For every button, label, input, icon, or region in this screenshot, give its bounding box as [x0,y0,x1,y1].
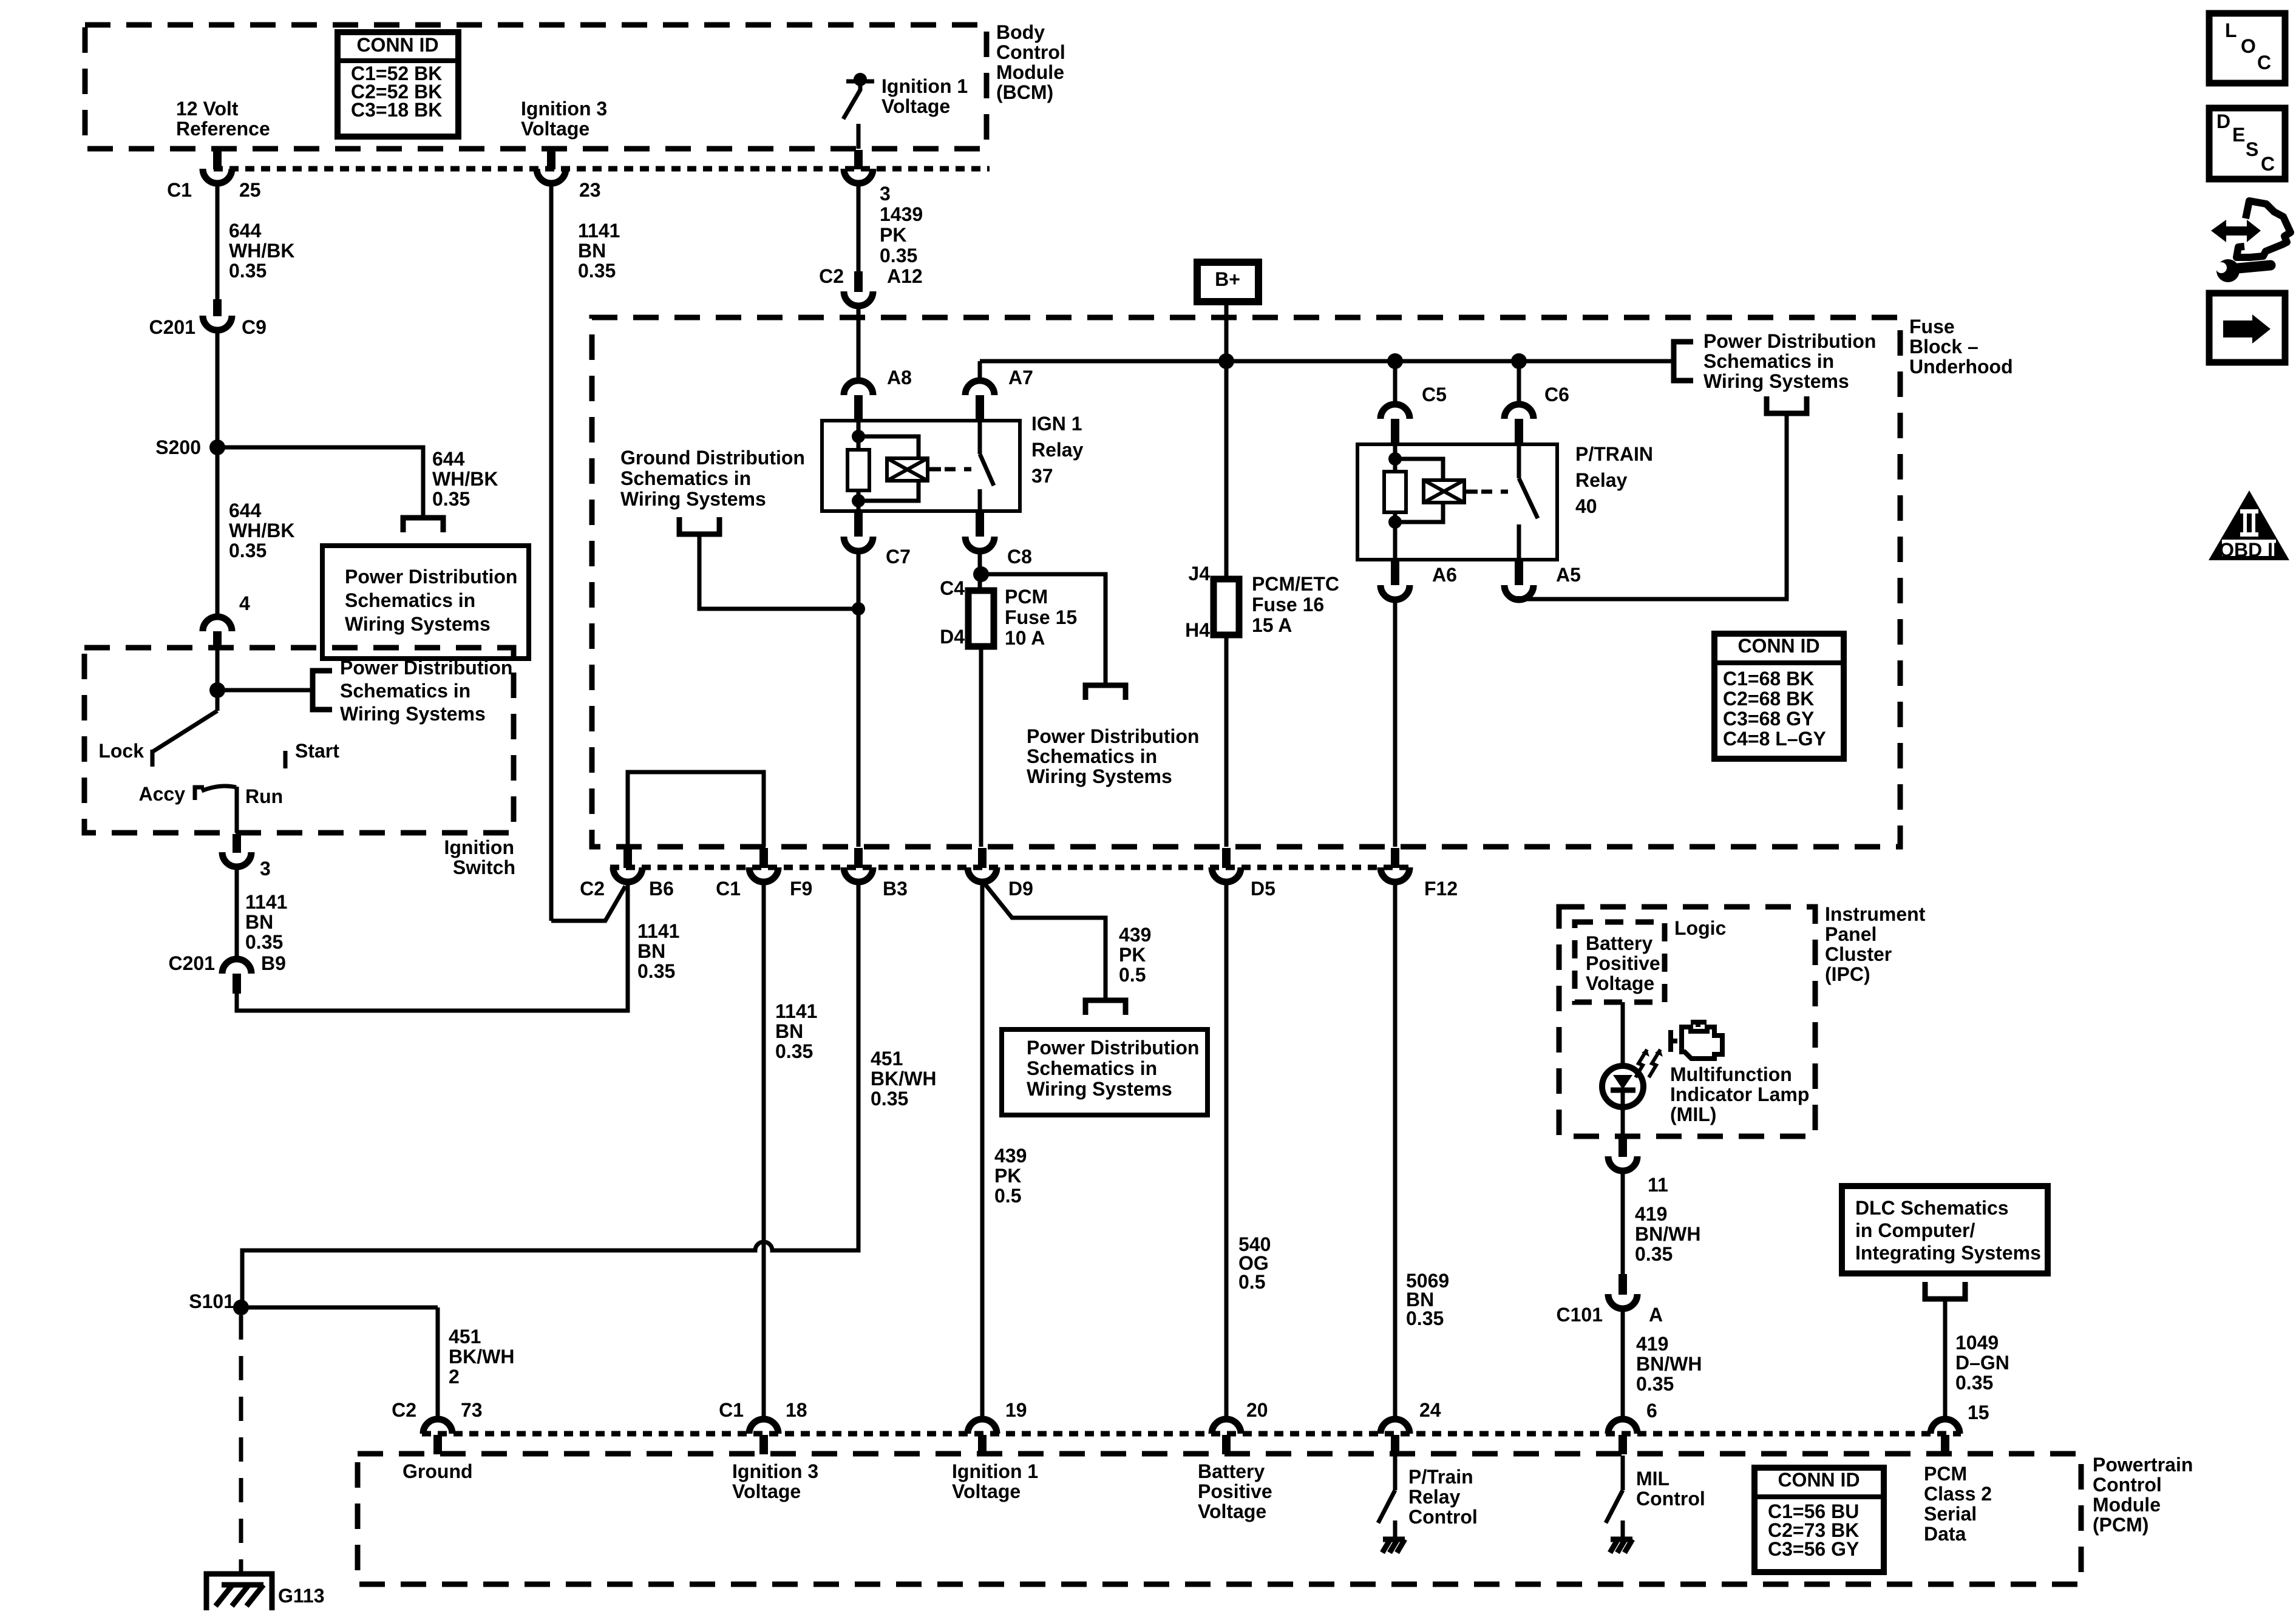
svg-text:0.35: 0.35 [1406,1307,1444,1329]
svg-text:Block –: Block – [1909,336,1978,358]
svg-text:Control: Control [2093,1474,2162,1496]
svg-text:Wiring Systems: Wiring Systems [345,613,491,635]
svg-text:Relay: Relay [1031,439,1084,461]
svg-text:Reference: Reference [176,118,270,140]
svg-text:Relay: Relay [1575,469,1628,491]
svg-text:BN: BN [245,911,273,933]
svg-text:0.35: 0.35 [229,260,267,282]
svg-text:0.35: 0.35 [245,931,283,953]
svg-text:B3: B3 [883,878,908,900]
svg-text:Accy: Accy [139,783,186,805]
svg-text:23: 23 [579,179,601,201]
svg-text:Power Distribution: Power Distribution [345,566,517,588]
svg-text:1141: 1141 [775,1000,817,1022]
svg-text:C201: C201 [149,316,196,338]
svg-text:0.35: 0.35 [1635,1243,1673,1265]
svg-text:Voltage: Voltage [732,1480,801,1502]
svg-text:Powertrain: Powertrain [2093,1454,2193,1476]
svg-text:(PCM): (PCM) [2093,1514,2148,1536]
svg-text:Module: Module [996,61,1064,83]
svg-text:C: C [2257,52,2271,73]
svg-text:Power Distribution: Power Distribution [1027,725,1199,747]
svg-text:C1=68 BK: C1=68 BK [1723,668,1814,690]
svg-text:0.5: 0.5 [1119,964,1146,986]
svg-text:A6: A6 [1432,564,1457,586]
svg-text:Voltage: Voltage [952,1480,1021,1502]
svg-text:644: 644 [432,448,465,470]
svg-text:419: 419 [1635,1203,1667,1225]
svg-text:Serial: Serial [1924,1503,1977,1525]
svg-text:11: 11 [1648,1174,1668,1196]
svg-text:A8: A8 [887,367,912,388]
svg-text:D4: D4 [940,626,965,648]
svg-text:S101: S101 [189,1290,234,1312]
svg-text:B6: B6 [649,878,674,900]
svg-text:Wiring Systems: Wiring Systems [620,488,766,510]
svg-text:Ignition 1: Ignition 1 [952,1460,1038,1482]
svg-text:40: 40 [1575,495,1597,517]
svg-text:Ground: Ground [402,1460,473,1482]
svg-text:Battery: Battery [1198,1460,1265,1482]
svg-text:C8: C8 [1007,546,1032,568]
svg-text:439: 439 [1119,924,1151,946]
svg-text:24: 24 [1419,1399,1441,1421]
svg-text:451: 451 [871,1048,903,1070]
svg-text:15 A: 15 A [1252,614,1292,636]
svg-text:PCM/ETC: PCM/ETC [1252,573,1339,595]
svg-text:Voltage: Voltage [521,118,589,140]
svg-text:Power Distribution: Power Distribution [1703,330,1876,352]
svg-text:Positive: Positive [1198,1480,1272,1502]
svg-text:0.35: 0.35 [637,960,675,982]
svg-text:C1: C1 [167,179,192,201]
svg-text:P/Train: P/Train [1408,1466,1473,1488]
svg-text:Control: Control [996,41,1065,63]
svg-text:Data: Data [1924,1523,1966,1545]
svg-text:Multifunction: Multifunction [1670,1063,1792,1085]
svg-text:25: 25 [239,179,261,201]
svg-text:D–GN: D–GN [1955,1352,2009,1374]
svg-text:Schematics in: Schematics in [1027,1057,1157,1079]
svg-text:BN: BN [775,1020,803,1042]
svg-text:Schematics in: Schematics in [620,467,751,489]
svg-text:20: 20 [1246,1399,1268,1421]
svg-text:3: 3 [260,858,271,880]
svg-text:C7: C7 [886,546,911,568]
svg-text:Wiring Systems: Wiring Systems [340,703,486,725]
svg-text:O: O [2241,35,2256,57]
svg-text:C2=68 BK: C2=68 BK [1723,688,1814,710]
svg-text:439: 439 [994,1145,1027,1167]
svg-text:C2: C2 [580,878,605,900]
svg-text:12 Volt: 12 Volt [176,98,239,120]
svg-text:C3=18 BK: C3=18 BK [351,99,442,121]
svg-text:1439: 1439 [880,203,923,225]
svg-text:Wiring Systems: Wiring Systems [1703,370,1849,392]
svg-text:0.35: 0.35 [432,488,470,510]
svg-text:WH/BK: WH/BK [229,240,294,262]
svg-text:Wiring Systems: Wiring Systems [1027,1078,1172,1100]
svg-text:C1: C1 [719,1399,744,1421]
svg-text:D: D [2216,110,2230,132]
svg-text:C4: C4 [940,577,965,599]
svg-text:3: 3 [880,183,891,205]
svg-text:IGN 1: IGN 1 [1031,413,1082,435]
svg-text:PK: PK [880,224,906,246]
svg-text:CONN ID: CONN ID [1778,1469,1860,1491]
svg-text:Relay: Relay [1408,1486,1461,1508]
svg-text:Run: Run [245,785,283,807]
svg-text:Power Distribution: Power Distribution [1027,1037,1199,1059]
svg-text:Indicator Lamp: Indicator Lamp [1670,1083,1809,1105]
svg-text:in Computer/: in Computer/ [1855,1219,1975,1241]
svg-text:C6: C6 [1544,384,1569,405]
svg-text:C1: C1 [716,878,741,900]
svg-text:Voltage: Voltage [881,95,950,117]
svg-text:15: 15 [1968,1402,1989,1423]
svg-text:Module: Module [2093,1494,2161,1516]
svg-text:B9: B9 [261,952,286,974]
svg-text:E: E [2232,124,2245,146]
svg-text:0.35: 0.35 [775,1040,813,1062]
svg-text:BN/WH: BN/WH [1635,1223,1700,1245]
svg-text:C9: C9 [242,316,267,338]
svg-text:CONN ID: CONN ID [356,34,438,56]
svg-text:Class 2: Class 2 [1924,1483,1992,1505]
svg-text:6: 6 [1646,1400,1657,1422]
svg-text:0.35: 0.35 [880,245,917,266]
svg-text:PK: PK [994,1165,1021,1187]
svg-text:2: 2 [449,1366,460,1388]
svg-text:C201: C201 [169,952,216,974]
svg-text:J4: J4 [1188,563,1210,585]
svg-text:Cluster: Cluster [1825,943,1892,965]
svg-text:CONN ID: CONN ID [1737,635,1819,657]
svg-text:Start: Start [295,740,339,762]
svg-text:0.5: 0.5 [1238,1271,1265,1293]
svg-text:Fuse: Fuse [1909,316,1955,337]
svg-text:D5: D5 [1251,878,1275,900]
svg-text:BN/WH: BN/WH [1636,1353,1702,1375]
svg-text:C: C [2261,153,2275,175]
svg-text:4: 4 [239,592,250,614]
svg-text:C4=8 L–GY: C4=8 L–GY [1723,728,1826,750]
svg-text:Ignition: Ignition [444,836,514,858]
svg-text:1141: 1141 [245,891,287,913]
svg-text:(IPC): (IPC) [1825,963,1870,985]
svg-text:F9: F9 [790,878,812,900]
svg-text:451: 451 [449,1326,481,1347]
svg-text:Fuse 15: Fuse 15 [1005,606,1077,628]
svg-text:1141: 1141 [578,220,620,242]
svg-text:Lock: Lock [98,740,144,762]
svg-text:BK/WH: BK/WH [449,1346,514,1368]
svg-text:73: 73 [461,1399,483,1421]
svg-text:37: 37 [1031,465,1053,487]
svg-text:A7: A7 [1008,367,1033,388]
svg-text:Schematics in: Schematics in [1703,350,1834,372]
svg-text:Switch: Switch [453,856,515,878]
svg-text:Panel: Panel [1825,923,1877,945]
svg-text:B+: B+ [1215,268,1240,290]
svg-text:C2: C2 [392,1399,416,1421]
svg-text:F12: F12 [1424,878,1458,900]
svg-text:Integrating Systems: Integrating Systems [1855,1242,2041,1264]
svg-text:Ignition 3: Ignition 3 [521,98,607,120]
svg-text:C2: C2 [819,265,844,287]
svg-text:18: 18 [786,1399,807,1421]
svg-text:Schematics in: Schematics in [345,589,475,611]
svg-text:(BCM): (BCM) [996,81,1053,103]
svg-text:Schematics in: Schematics in [340,680,470,702]
svg-text:WH/BK: WH/BK [432,468,498,490]
svg-text:Underhood: Underhood [1909,356,2013,378]
svg-text:C101: C101 [1557,1304,1603,1326]
svg-text:Voltage: Voltage [1198,1500,1266,1522]
svg-text:(MIL): (MIL) [1670,1103,1716,1125]
svg-text:G113: G113 [278,1585,325,1607]
svg-text:MIL: MIL [1636,1468,1669,1490]
svg-text:19: 19 [1005,1399,1027,1421]
svg-text:1141: 1141 [637,920,679,942]
svg-text:0.35: 0.35 [578,260,616,282]
svg-text:Battery: Battery [1586,932,1652,954]
svg-text:PCM: PCM [1005,586,1048,608]
svg-text:BK/WH: BK/WH [871,1068,936,1090]
svg-text:P/TRAIN: P/TRAIN [1575,443,1653,465]
svg-text:C5: C5 [1422,384,1447,405]
svg-text:H4: H4 [1185,619,1210,641]
svg-text:10 A: 10 A [1005,627,1045,649]
svg-text:D9: D9 [1008,878,1033,900]
svg-text:DLC Schematics: DLC Schematics [1855,1197,2009,1219]
svg-text:Body: Body [996,21,1045,43]
svg-text:A: A [1649,1304,1663,1326]
svg-text:PCM: PCM [1924,1463,1967,1485]
svg-text:Control: Control [1408,1506,1478,1528]
svg-text:C3=68 GY: C3=68 GY [1723,708,1814,730]
svg-text:644: 644 [229,220,262,242]
svg-text:A12: A12 [887,265,923,287]
svg-text:0.35: 0.35 [1955,1372,1993,1394]
svg-text:0.35: 0.35 [1636,1373,1674,1395]
svg-text:OBD II: OBD II [2219,539,2278,561]
svg-text:WH/BK: WH/BK [229,520,294,541]
svg-text:C3=56 GY: C3=56 GY [1768,1538,1859,1560]
svg-text:Fuse 16: Fuse 16 [1252,594,1324,615]
svg-text:L: L [2225,19,2237,41]
svg-text:Logic: Logic [1674,917,1726,939]
svg-text:0.5: 0.5 [994,1185,1021,1207]
svg-text:Positive: Positive [1586,952,1660,974]
svg-text:BN: BN [637,940,665,962]
svg-text:Wiring Systems: Wiring Systems [1027,765,1172,787]
svg-text:PK: PK [1119,944,1146,966]
svg-text:0.35: 0.35 [229,540,267,561]
svg-text:Ignition 1: Ignition 1 [881,75,968,97]
svg-text:0.35: 0.35 [871,1088,908,1110]
svg-text:A5: A5 [1556,564,1581,586]
svg-text:Ground Distribution: Ground Distribution [620,447,805,469]
svg-text:Voltage: Voltage [1586,972,1654,994]
svg-text:Instrument: Instrument [1825,903,1926,925]
svg-text:S200: S200 [155,436,201,458]
svg-text:644: 644 [229,500,262,521]
svg-text:Power Distribution: Power Distribution [340,657,512,679]
svg-text:Control: Control [1636,1488,1705,1510]
svg-text:419: 419 [1636,1333,1668,1355]
svg-text:Schematics in: Schematics in [1027,745,1157,767]
svg-text:1049: 1049 [1955,1332,1999,1354]
svg-text:BN: BN [578,240,606,262]
svg-text:S: S [2246,138,2258,160]
svg-text:Ignition 3: Ignition 3 [732,1460,818,1482]
